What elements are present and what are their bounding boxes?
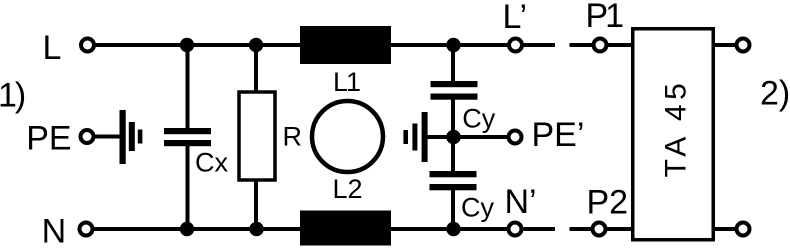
wire dash before P2 [570,227,593,231]
wire R branch upper [254,45,258,93]
node junction top Cx [180,38,194,52]
terminal N' [509,223,522,236]
wire Cy branch lower [451,189,455,229]
capacitor Cy top plate upper [431,81,478,87]
wire R branch lower [254,179,258,229]
node junction bottom Cy [446,222,460,236]
ground symbol mid small bar [403,130,408,144]
svg-text:L2: L2 [332,174,362,204]
svg-text:L’: L’ [503,0,528,36]
capacitor Cy bottom plate upper [430,171,477,177]
node junction bottom Cx [180,222,194,236]
capacitor Cy bottom plate lower [430,184,477,190]
ground symbol left middle bar [129,122,135,151]
svg-text:1): 1) [0,77,25,115]
terminal L [81,39,94,52]
terminal P2 [593,223,606,236]
wire Cx branch upper [186,45,190,129]
wire bottom line from L2 to N' terminal [389,227,508,231]
node junction top Cy [446,38,460,52]
wire Cy branch upper [451,45,455,82]
wire dash after N' [524,227,556,231]
resistor R body [239,92,275,180]
wire dash after L' [524,43,556,47]
wire PE terminal to ground [94,135,122,139]
svg-text:L: L [43,29,62,67]
wire top line L from terminal to L1 [94,43,302,47]
svg-text:2): 2) [760,75,790,113]
inductor L2 winding [300,211,391,246]
terminal PE [81,130,94,143]
wire TA45 box to top output terminal [715,43,736,47]
svg-text:Cy: Cy [462,104,495,134]
wire top line from L1 to L' terminal [389,43,508,47]
svg-text:N: N [42,213,67,248]
ground symbol mid tall bar [422,112,428,162]
svg-text:Cx: Cx [195,148,228,178]
svg-text:PE’: PE’ [532,116,585,154]
wire bottom line N from terminal to L2 [93,227,302,231]
ground symbol left tall bar [120,110,126,164]
terminal L' [509,39,522,52]
wire Cx branch lower [186,145,190,229]
wire dash before P1 [570,43,593,47]
wire mid node to PE' terminal [453,135,508,139]
transformer block TA 45 [633,29,714,240]
inductor L1 winding [300,26,391,64]
terminal output top [737,39,750,52]
svg-text:P1: P1 [586,0,624,35]
svg-text:Cy: Cy [461,193,494,223]
svg-text:L1: L1 [333,67,360,97]
svg-text:R: R [283,122,303,152]
ground symbol left small bar [138,130,143,144]
wire TA45 box to bottom output terminal [715,227,736,231]
capacitor Cx plate top [164,128,211,134]
capacitor Cy top plate lower [431,94,478,100]
choke core circle [312,101,383,172]
svg-text:N’: N’ [505,183,537,221]
terminal PE' [509,131,522,144]
svg-text:P2: P2 [587,184,629,222]
wire mid node to ground [427,135,453,139]
wire P2 to TA45 box [606,227,633,231]
terminal output bottom [737,223,750,236]
terminal P1 [594,39,607,52]
node junction bottom R [249,222,263,236]
svg-text:TA 45: TA 45 [660,79,693,178]
node junction top R [249,38,263,52]
wire Cy branch middle [451,99,455,173]
capacitor Cx plate bottom [164,140,211,146]
wire P1 to TA45 box [607,43,633,47]
terminal N [80,223,93,236]
ground symbol mid middle bar [412,124,417,151]
svg-text:PE: PE [26,120,71,158]
node junction mid Cy [446,130,461,145]
